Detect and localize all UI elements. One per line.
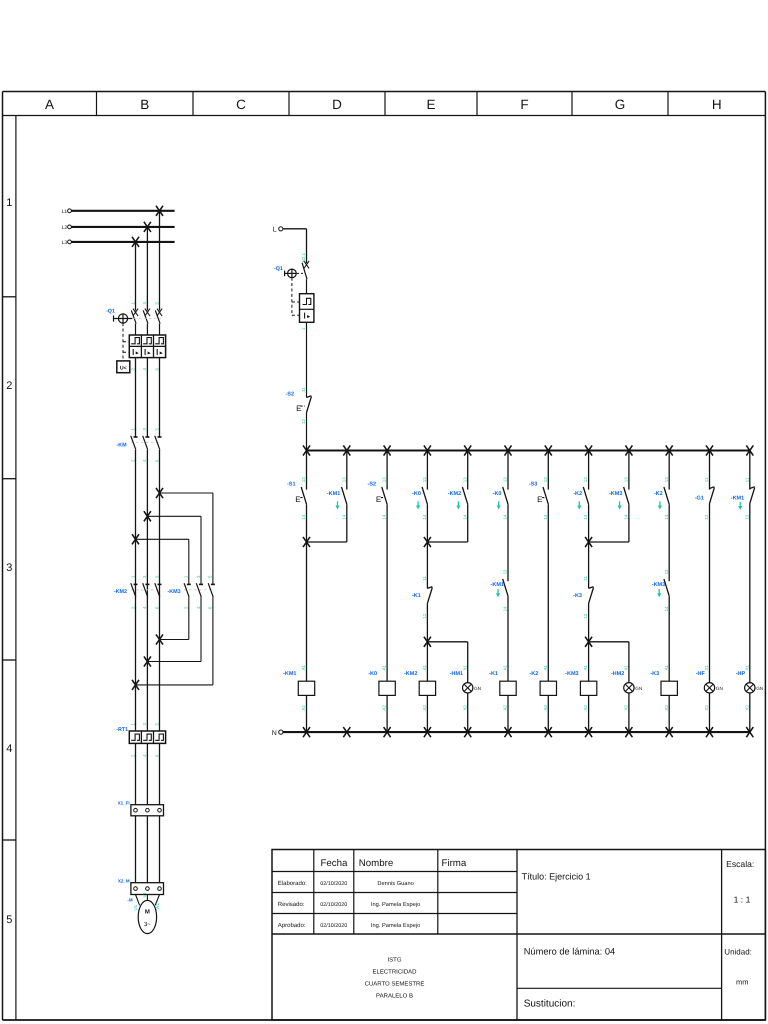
svg-text:L: L xyxy=(273,227,277,234)
svg-text:-K3: -K3 xyxy=(573,593,582,599)
svg-text:GN: GN xyxy=(474,686,481,691)
svg-text:B: B xyxy=(140,97,149,112)
svg-text:2: 2 xyxy=(130,459,135,462)
svg-text:13: 13 xyxy=(422,477,427,482)
svg-text:-K2: -K2 xyxy=(529,671,538,677)
svg-text:W1: W1 xyxy=(155,902,160,909)
svg-text:-K1: -K1 xyxy=(489,671,498,677)
svg-text:H: H xyxy=(712,97,722,112)
svg-text:A1: A1 xyxy=(422,664,427,670)
svg-text:M: M xyxy=(145,909,150,916)
svg-text:2: 2 xyxy=(184,606,189,609)
svg-text:4: 4 xyxy=(142,754,147,757)
svg-text:Elaborado:: Elaborado: xyxy=(278,880,307,887)
svg-text:-HP: -HP xyxy=(736,671,746,677)
svg-text:C: C xyxy=(236,97,246,112)
svg-text:X2: X2 xyxy=(704,705,709,711)
svg-text:-KM2: -KM2 xyxy=(404,671,417,677)
svg-text:14: 14 xyxy=(664,514,669,519)
svg-text:X2_M: X2_M xyxy=(118,879,130,884)
svg-text:3: 3 xyxy=(142,723,147,726)
svg-text:X2: X2 xyxy=(624,705,629,711)
svg-text:GN: GN xyxy=(716,686,723,691)
svg-text:2: 2 xyxy=(130,754,135,757)
svg-text:14: 14 xyxy=(624,514,629,519)
svg-text:Revisado:: Revisado: xyxy=(278,901,305,908)
svg-text:A1: A1 xyxy=(382,664,387,670)
svg-text:A1: A1 xyxy=(583,664,588,670)
svg-text:-HM2: -HM2 xyxy=(611,671,624,677)
svg-text:-KM3: -KM3 xyxy=(565,671,578,677)
svg-text:A2: A2 xyxy=(583,705,588,711)
svg-text:13: 13 xyxy=(382,477,387,482)
svg-text:-G1: -G1 xyxy=(695,496,704,502)
svg-text:X1: X1 xyxy=(744,664,749,670)
svg-text:6: 6 xyxy=(154,368,159,371)
svg-text:12: 12 xyxy=(744,514,749,519)
svg-text:-KM1: -KM1 xyxy=(491,582,504,588)
svg-text:U1: U1 xyxy=(133,904,138,910)
svg-text:-K0: -K0 xyxy=(412,491,421,497)
svg-text:1: 1 xyxy=(6,197,12,209)
svg-text:X1: X1 xyxy=(704,664,709,670)
svg-text:3: 3 xyxy=(142,302,147,305)
svg-text:5: 5 xyxy=(154,723,159,726)
svg-text:L1: L1 xyxy=(62,209,68,215)
svg-text:V1: V1 xyxy=(142,892,147,898)
svg-text:N: N xyxy=(272,730,277,737)
svg-text:-HF: -HF xyxy=(696,671,706,677)
svg-text:14: 14 xyxy=(301,514,306,519)
svg-text:-HM1: -HM1 xyxy=(450,671,463,677)
svg-text:-S2: -S2 xyxy=(285,392,294,398)
svg-text:A1: A1 xyxy=(543,664,548,670)
svg-text:Escala:: Escala: xyxy=(726,859,754,869)
svg-text:6: 6 xyxy=(208,606,213,609)
svg-text:A1: A1 xyxy=(301,664,306,670)
svg-text:13: 13 xyxy=(664,569,669,574)
svg-text:-Q1: -Q1 xyxy=(274,266,283,272)
svg-text:12: 12 xyxy=(422,613,427,618)
svg-text:3~: 3~ xyxy=(144,921,151,928)
svg-text:Fecha: Fecha xyxy=(321,858,349,869)
svg-text:X1_FI: X1_FI xyxy=(118,801,130,806)
svg-text:-S1: -S1 xyxy=(287,482,296,488)
svg-text:GN: GN xyxy=(635,686,642,691)
svg-text:4: 4 xyxy=(142,368,147,371)
svg-text:-KM: -KM xyxy=(116,443,127,449)
svg-text:mm: mm xyxy=(736,977,749,986)
svg-text:3: 3 xyxy=(142,428,147,431)
svg-text:E: E xyxy=(295,495,300,504)
svg-text:14: 14 xyxy=(462,514,467,519)
svg-text:4: 4 xyxy=(142,459,147,462)
svg-text:1: 1 xyxy=(130,575,135,578)
svg-text:6: 6 xyxy=(154,606,159,609)
svg-text:-KM1: -KM1 xyxy=(283,671,296,677)
svg-text:-KM3: -KM3 xyxy=(652,582,665,588)
svg-text:1: 1 xyxy=(130,428,135,431)
svg-text:2: 2 xyxy=(130,368,135,371)
svg-text:Número de lámina: 04: Número de lámina: 04 xyxy=(524,946,615,956)
svg-text:-KM1: -KM1 xyxy=(327,491,340,497)
svg-text:4: 4 xyxy=(6,743,12,755)
svg-text:12: 12 xyxy=(583,613,588,618)
svg-text:14: 14 xyxy=(503,514,508,519)
svg-text:11: 11 xyxy=(422,576,427,581)
svg-text:L2: L2 xyxy=(62,225,68,231)
svg-text:2: 2 xyxy=(130,606,135,609)
svg-text:5: 5 xyxy=(154,575,159,578)
svg-text:A: A xyxy=(45,97,54,112)
svg-text:13: 13 xyxy=(503,569,508,574)
svg-text:Ing. Pamela Espejo: Ing. Pamela Espejo xyxy=(371,901,420,908)
svg-text:13: 13 xyxy=(624,477,629,482)
svg-text:11: 11 xyxy=(583,576,588,581)
svg-text:14: 14 xyxy=(341,514,346,519)
svg-text:3: 3 xyxy=(142,575,147,578)
svg-text:PARALELO B: PARALELO B xyxy=(376,992,413,999)
svg-text:Unidad:: Unidad: xyxy=(724,947,752,956)
svg-text:A2: A2 xyxy=(543,705,548,711)
svg-text:Aprobado:: Aprobado: xyxy=(278,922,306,929)
svg-text:-Q1: -Q1 xyxy=(106,309,115,315)
svg-text:F: F xyxy=(520,97,528,112)
svg-text:4: 4 xyxy=(196,606,201,609)
svg-text:14: 14 xyxy=(422,514,427,519)
svg-text:-K2: -K2 xyxy=(573,491,582,497)
svg-text:14: 14 xyxy=(382,514,387,519)
svg-text:CUARTO SEMESTRE: CUARTO SEMESTRE xyxy=(365,981,425,988)
svg-text:13: 13 xyxy=(664,477,669,482)
svg-text:14: 14 xyxy=(543,514,548,519)
svg-text:-KM3: -KM3 xyxy=(167,589,180,595)
svg-text:A1: A1 xyxy=(503,664,508,670)
svg-text:-KM3: -KM3 xyxy=(609,491,622,497)
svg-text:14: 14 xyxy=(503,606,508,611)
svg-text:E: E xyxy=(376,495,381,504)
svg-text:5: 5 xyxy=(154,302,159,305)
svg-text:-K2: -K2 xyxy=(654,491,663,497)
svg-text:14: 14 xyxy=(583,514,588,519)
svg-text:13: 13 xyxy=(503,477,508,482)
svg-text:13: 13 xyxy=(583,477,588,482)
svg-text:13: 13 xyxy=(301,477,306,482)
svg-text:-KM2: -KM2 xyxy=(114,589,127,595)
svg-text:ISTG: ISTG xyxy=(387,957,401,964)
svg-text:D: D xyxy=(332,97,342,112)
svg-text:5: 5 xyxy=(6,914,12,926)
svg-text:Título: Ejercicio 1: Título: Ejercicio 1 xyxy=(522,871,591,881)
svg-text:Sustitucion:: Sustitucion: xyxy=(524,999,576,1010)
svg-text:1: 1 xyxy=(130,302,135,305)
svg-text:13: 13 xyxy=(543,477,548,482)
svg-text:-S2: -S2 xyxy=(368,482,377,488)
svg-text:5: 5 xyxy=(208,575,213,578)
svg-text:3: 3 xyxy=(6,562,12,574)
svg-text:12: 12 xyxy=(301,419,306,424)
svg-text:X2: X2 xyxy=(744,705,749,711)
svg-text:1 : 1: 1 : 1 xyxy=(734,894,751,904)
svg-text:02/10/2020: 02/10/2020 xyxy=(320,902,347,908)
svg-text:-M: -M xyxy=(127,898,132,903)
svg-text:6: 6 xyxy=(154,459,159,462)
svg-text:S2.1: S2.1 xyxy=(301,252,306,262)
svg-text:Dennis Guano: Dennis Guano xyxy=(377,880,413,887)
svg-text:E: E xyxy=(537,495,542,504)
svg-text:3: 3 xyxy=(196,575,201,578)
svg-text:11: 11 xyxy=(744,477,749,482)
svg-text:-K0: -K0 xyxy=(493,491,502,497)
svg-text:A2: A2 xyxy=(382,705,387,711)
svg-text:1: 1 xyxy=(184,575,189,578)
svg-text:13: 13 xyxy=(462,477,467,482)
svg-text:Firma: Firma xyxy=(442,858,467,869)
svg-text:A2: A2 xyxy=(503,705,508,711)
svg-text:Nombre: Nombre xyxy=(359,858,393,869)
svg-text:A2: A2 xyxy=(301,705,306,711)
svg-text:Ing. Pamela Espejo: Ing. Pamela Espejo xyxy=(371,922,420,929)
svg-text:5: 5 xyxy=(154,428,159,431)
svg-text:11: 11 xyxy=(704,477,709,482)
svg-text:GN: GN xyxy=(756,686,763,691)
svg-text:12: 12 xyxy=(704,514,709,519)
svg-text:E: E xyxy=(296,404,301,413)
svg-text:6: 6 xyxy=(154,754,159,757)
svg-text:-KM1: -KM1 xyxy=(731,496,744,502)
svg-text:2: 2 xyxy=(6,380,12,392)
svg-text:-K0: -K0 xyxy=(368,671,377,677)
svg-text:-K3: -K3 xyxy=(650,671,659,677)
svg-text:14: 14 xyxy=(664,606,669,611)
svg-text:X1: X1 xyxy=(462,664,467,670)
svg-text:-S3: -S3 xyxy=(529,482,538,488)
svg-text:X2: X2 xyxy=(462,705,467,711)
svg-text:-KM2: -KM2 xyxy=(448,491,461,497)
svg-text:11: 11 xyxy=(301,387,306,392)
svg-text:1: 1 xyxy=(301,327,306,330)
svg-text:A1: A1 xyxy=(664,664,669,670)
svg-text:L3: L3 xyxy=(62,240,68,246)
svg-text:4: 4 xyxy=(142,606,147,609)
svg-text:X1: X1 xyxy=(624,664,629,670)
svg-text:A2: A2 xyxy=(422,705,427,711)
svg-text:A2: A2 xyxy=(664,705,669,711)
svg-text:G: G xyxy=(615,97,626,112)
svg-text:ELECTRICIDAD: ELECTRICIDAD xyxy=(372,969,417,976)
svg-text:-K1: -K1 xyxy=(412,593,421,599)
svg-text:1: 1 xyxy=(130,723,135,726)
svg-text:U<: U< xyxy=(120,366,127,372)
svg-text:13: 13 xyxy=(341,477,346,482)
svg-text:E: E xyxy=(426,97,435,112)
svg-text:02/10/2020: 02/10/2020 xyxy=(320,923,347,929)
svg-text:-RT1: -RT1 xyxy=(116,727,128,733)
svg-text:02/10/2020: 02/10/2020 xyxy=(320,881,347,887)
